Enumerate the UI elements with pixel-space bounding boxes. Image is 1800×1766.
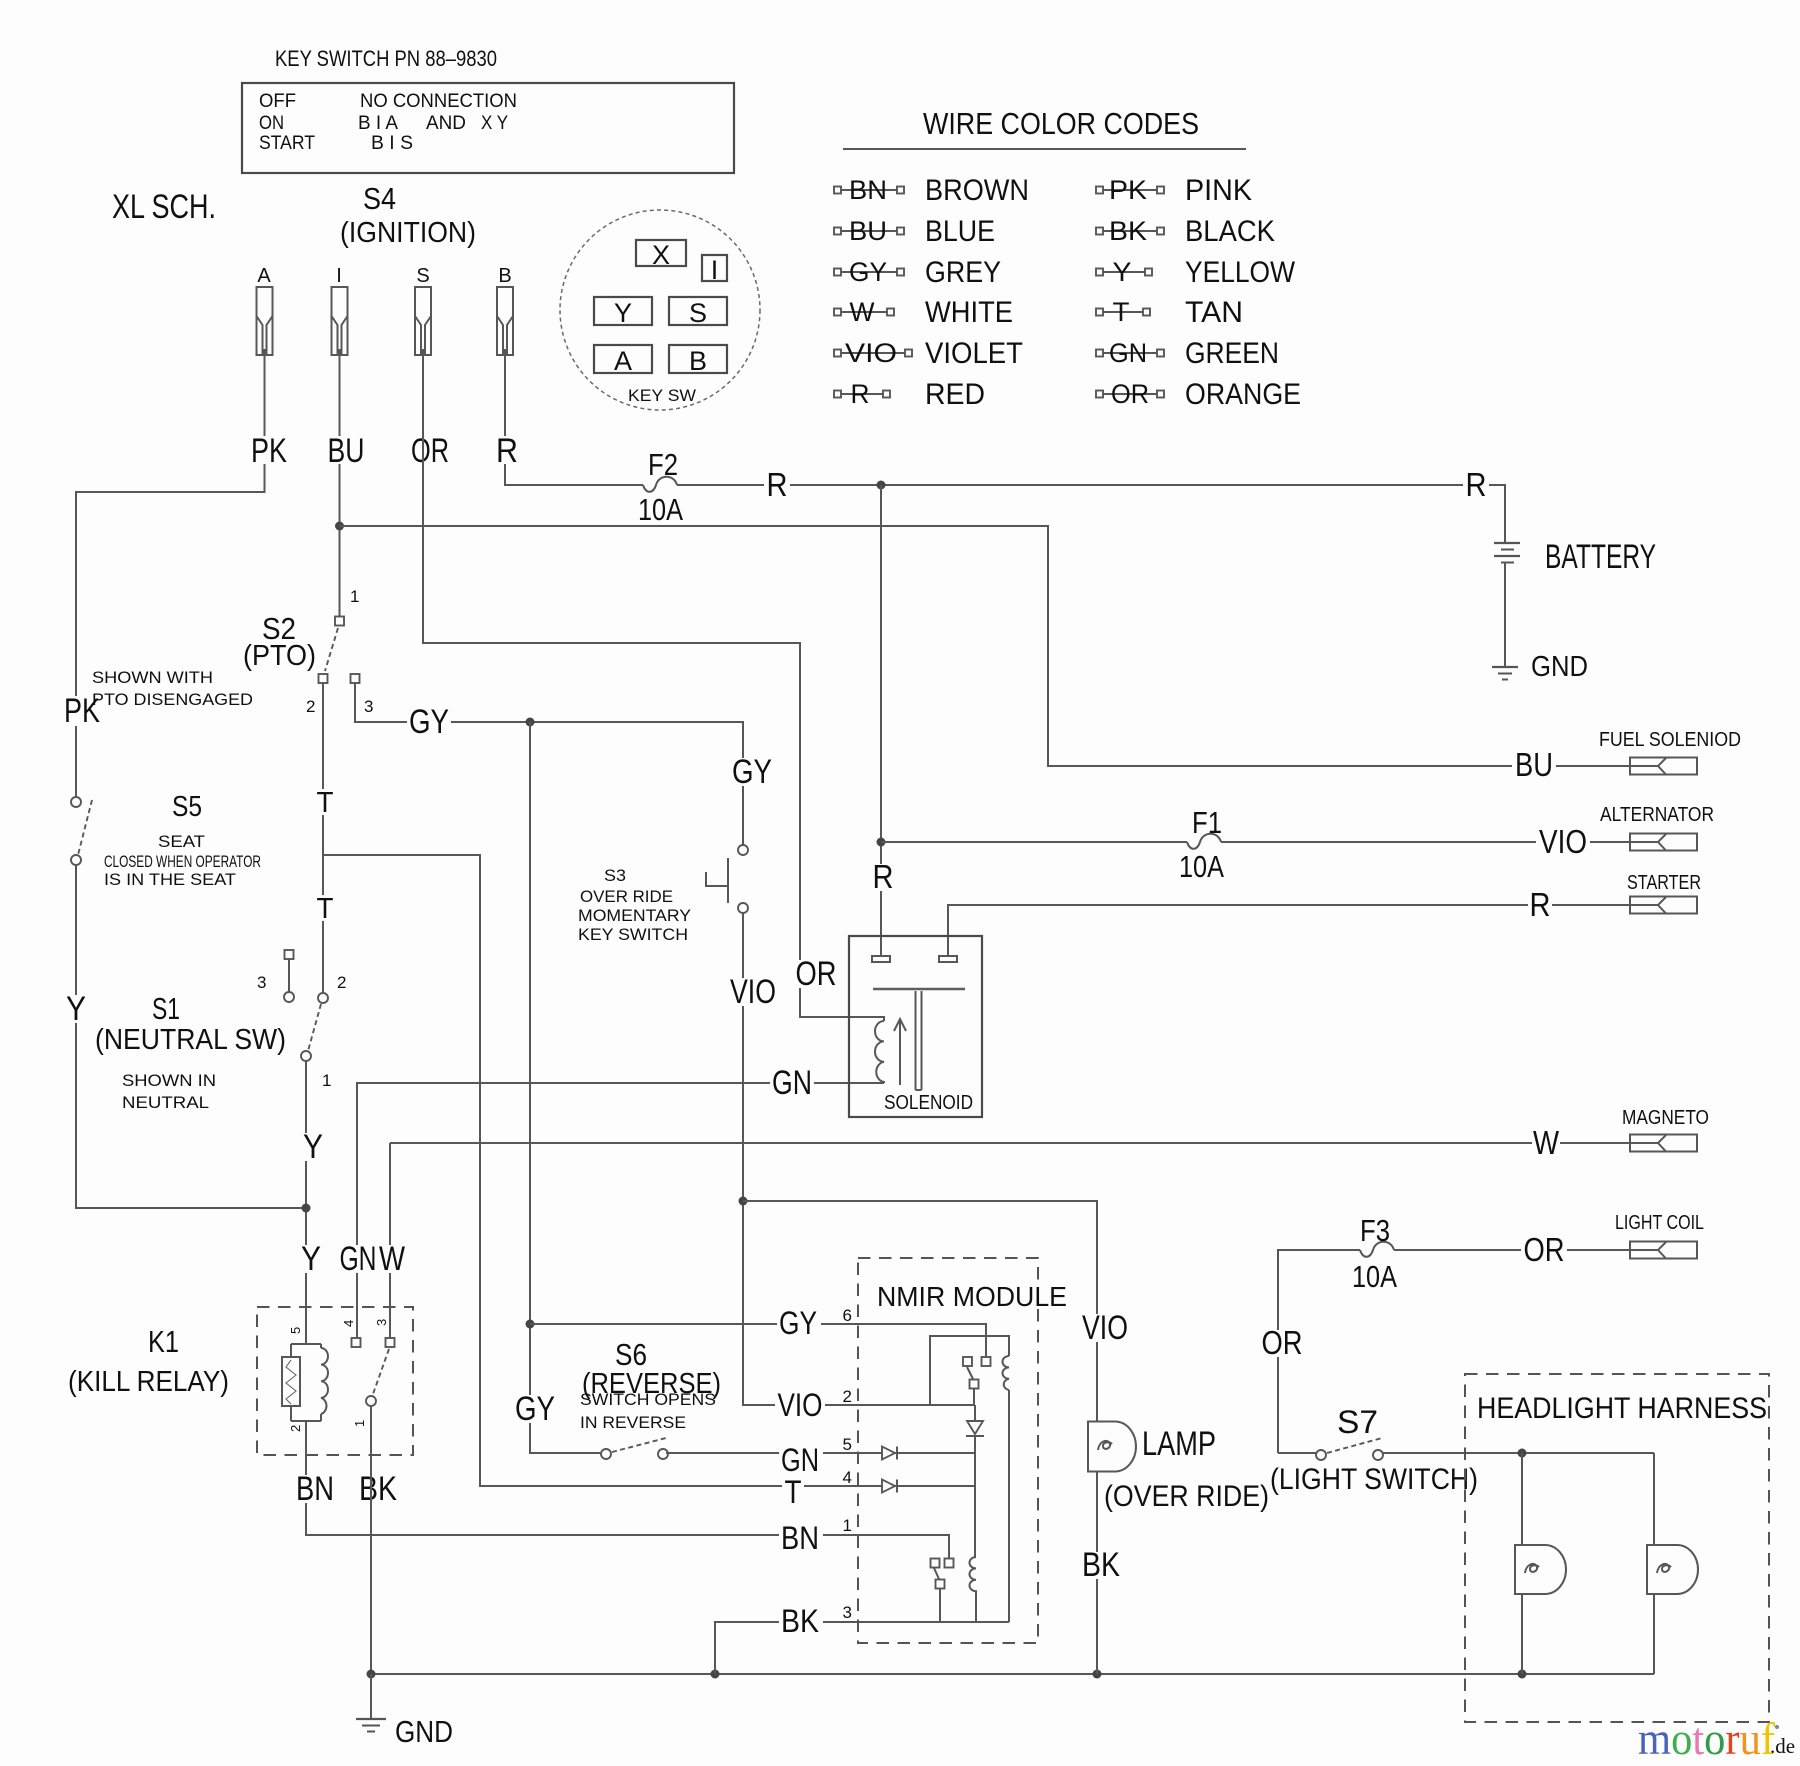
svg-text:XL SCH.: XL SCH. (112, 188, 216, 226)
battery (1494, 538, 1656, 576)
svg-text:Y: Y (66, 990, 86, 1028)
svg-text:K1: K1 (148, 1324, 179, 1359)
svg-text:1: 1 (350, 587, 359, 606)
label BU under pin I (325, 432, 365, 470)
wire GY drop to S6 and NMIR pin 6 (530, 722, 603, 1453)
resistor R in K1 (282, 1357, 300, 1406)
svg-text:CLOSED WHEN OPERATOR: CLOSED WHEN OPERATOR (104, 852, 261, 871)
svg-text:BLACK: BLACK (1185, 215, 1275, 248)
label Y lower (298, 1240, 324, 1278)
NMIR top relay contact (963, 1357, 991, 1405)
svg-text:4: 4 (341, 1320, 356, 1327)
svg-text:STARTER: STARTER (1627, 872, 1701, 894)
NMIR bottom relay coil (970, 1557, 976, 1622)
svg-text:SHOWN WITH: SHOWN WITH (92, 668, 213, 687)
label BN below K1 (294, 1470, 336, 1508)
svg-text:KEY SW: KEY SW (628, 386, 696, 405)
svg-text:KEY SWITCH PN 88–9830: KEY SWITCH PN 88–9830 (275, 46, 497, 71)
switch S3 over ride momentary (706, 845, 748, 913)
svg-text:SWITCH OPENS: SWITCH OPENS (580, 1390, 716, 1409)
svg-text:MAGNETO: MAGNETO (1622, 1107, 1709, 1129)
svg-text:BU: BU (328, 432, 365, 470)
coil of K1 (321, 1348, 328, 1414)
svg-text:S7: S7 (1337, 1404, 1378, 1440)
ground battery GND (1492, 651, 1588, 683)
svg-text:1: 1 (352, 1420, 367, 1427)
svg-text:SOLENOID: SOLENOID (884, 1092, 973, 1114)
label GY at NMIR pin 6 (777, 1305, 821, 1341)
wire alternator feed through F1 (881, 841, 1187, 843)
svg-text:GREEN: GREEN (1185, 337, 1279, 370)
label BK below K1 (357, 1470, 399, 1508)
wire GN from S6 to NMIR pin 5 (666, 1452, 975, 1454)
svg-text:(OVER RIDE): (OVER RIDE) (1104, 1480, 1269, 1513)
svg-text:BU: BU (1515, 746, 1553, 783)
svg-text:MOMENTARY: MOMENTARY (578, 906, 691, 925)
svg-text:BROWN: BROWN (925, 174, 1029, 207)
svg-text:3: 3 (843, 1603, 852, 1622)
connector pin I of S4 (332, 265, 348, 355)
label PK at seat switch (58, 692, 104, 730)
svg-text:Y: Y (301, 1240, 321, 1278)
wire from S7 to headlights (1382, 1452, 1654, 1454)
svg-text:BK: BK (781, 1603, 819, 1639)
svg-text:(PTO): (PTO) (243, 640, 316, 672)
svg-text:BK: BK (1109, 216, 1147, 246)
svg-text:SEAT: SEAT (158, 832, 205, 851)
wire OR light coil (1394, 1249, 1658, 1251)
wire left headlamp to ground rail (1521, 1594, 1523, 1674)
label VIO at NMIR pin 2 (775, 1387, 825, 1423)
headlamp right (1647, 1545, 1698, 1594)
wire T from S2 pin 2 to S1 pin 2 (322, 683, 324, 993)
label R on wire (764, 466, 790, 503)
connector LIGHT COIL (1615, 1212, 1704, 1259)
svg-text:FUEL SOLENIOD: FUEL SOLENIOD (1599, 729, 1741, 751)
solenoid plunger arrow (894, 1019, 906, 1085)
svg-text:Y: Y (1113, 257, 1132, 287)
legend row GN GREEN (1096, 337, 1279, 370)
svg-text:Y: Y (303, 1128, 323, 1166)
svg-text:BN: BN (781, 1520, 819, 1556)
label T at NMIR pin 4 (782, 1474, 804, 1510)
svg-text:IS IN THE SEAT: IS IN THE SEAT (104, 870, 236, 889)
ground symbol GND (356, 1674, 453, 1749)
svg-text:10A: 10A (1352, 1259, 1397, 1294)
label S1 pin numbers (257, 973, 346, 1090)
motoruf watermark logo (1638, 1713, 1795, 1764)
svg-text:1: 1 (322, 1071, 331, 1090)
svg-text:PINK: PINK (1185, 174, 1252, 207)
svg-text:T: T (1113, 297, 1130, 327)
wire R starter from solenoid (948, 905, 1658, 956)
label BN at NMIR pin 1 (779, 1520, 823, 1556)
node ground junctions (367, 1670, 376, 1679)
wire battery to ground (1504, 563, 1506, 668)
label S6 (REVERSE) (580, 1337, 721, 1432)
relay K1 contact pin 3 terminal (386, 1338, 395, 1347)
connector FUEL SOLENIOD (1599, 729, 1741, 775)
fuse F2 (638, 447, 683, 527)
headlight harness dashed box (1465, 1374, 1769, 1722)
svg-text:OR: OR (1111, 379, 1149, 409)
svg-text:ON: ON (259, 113, 284, 134)
wire W to magneto (390, 1142, 1658, 1144)
svg-text:2: 2 (843, 1387, 852, 1406)
label S2 pin numbers (306, 587, 373, 716)
diode D3 on pin 4 wire (882, 1480, 895, 1493)
svg-text:I: I (711, 255, 719, 285)
svg-text:X Y: X Y (481, 113, 508, 134)
label W lower (378, 1240, 406, 1278)
node headlight feed junction (1518, 1449, 1527, 1458)
svg-text:S3: S3 (604, 866, 626, 885)
label OR under pin S (408, 432, 450, 470)
NMIR top relay coil (1003, 1356, 1010, 1390)
svg-text:GY: GY (515, 1390, 555, 1428)
svg-text:A: A (614, 346, 632, 376)
label VIO on alternator wire (1536, 823, 1590, 860)
svg-text:BLUE: BLUE (925, 215, 995, 248)
svg-text:BU: BU (849, 216, 887, 246)
label K1 (KILL RELAY) (68, 1324, 229, 1398)
svg-text:(IGNITION): (IGNITION) (340, 217, 476, 249)
svg-text:BATTERY: BATTERY (1545, 538, 1656, 576)
svg-text:B: B (689, 346, 707, 376)
svg-text:(NEUTRAL SW): (NEUTRAL SW) (95, 1024, 286, 1056)
svg-text:2: 2 (288, 1425, 303, 1432)
wire OR from light coil through F3 (1278, 1250, 1360, 1453)
svg-text:F3: F3 (1360, 1213, 1390, 1248)
wire BU from key pin I to S2 pin 1 (339, 355, 341, 616)
node R junction at battery feed (877, 481, 886, 490)
relay K1 coil branch wiring (291, 1344, 321, 1421)
wire W drop to K1 pin 3 (389, 1143, 391, 1338)
svg-text:6: 6 (843, 1306, 852, 1325)
svg-text:S4: S4 (363, 181, 396, 216)
label S1 (NEUTRAL SW) (95, 991, 286, 1112)
svg-text:3: 3 (257, 973, 266, 992)
svg-text:B I A: B I A (358, 113, 398, 134)
legend row R RED (834, 378, 985, 411)
wire NMIR internal common drop to pin 3 line (1008, 1390, 1010, 1622)
svg-text:GN: GN (772, 1064, 812, 1102)
label BU on fuel solenoid wire (1512, 746, 1556, 783)
label BK at NMIR pin 3 (779, 1603, 823, 1639)
svg-text:T: T (317, 893, 334, 925)
svg-text:3: 3 (364, 697, 373, 716)
connector pin A of S4 (257, 265, 273, 355)
label VIO below S3 (728, 973, 778, 1011)
node VIO junction to lamp (739, 1197, 748, 1206)
label Y on left wire (64, 990, 88, 1028)
wire to left headlamp (1521, 1453, 1523, 1545)
switch S1 (neutral) (284, 950, 328, 1061)
svg-text:WIRE COLOR CODES: WIRE COLOR CODES (923, 106, 1199, 141)
svg-text:T: T (785, 1474, 802, 1510)
svg-text:5: 5 (843, 1435, 852, 1454)
connector MAGNETO (1622, 1107, 1709, 1152)
relay K1 dashed box (257, 1307, 413, 1455)
label LAMP (OVER RIDE) (1104, 1425, 1269, 1513)
wire VIO branch to override lamp (743, 1201, 1097, 1421)
svg-text:WHITE: WHITE (925, 296, 1013, 329)
svg-text:NEUTRAL: NEUTRAL (122, 1093, 209, 1112)
svg-text:YELLOW: YELLOW (1185, 256, 1296, 289)
svg-text:W: W (379, 1240, 405, 1278)
key switch face diagram (KEY SW) (560, 210, 760, 410)
svg-text:PK: PK (251, 432, 287, 470)
fuse F3 (1352, 1213, 1397, 1294)
switch S6 (reverse) (601, 1438, 668, 1459)
svg-text:F2: F2 (648, 447, 678, 482)
svg-text:OR: OR (796, 955, 837, 993)
legend row OR ORANGE (1096, 378, 1301, 411)
svg-text:RED: RED (925, 378, 985, 411)
label S2 (PTO) (243, 611, 316, 672)
label T lower (314, 893, 336, 925)
svg-text:LIGHT COIL: LIGHT COIL (1615, 1212, 1704, 1234)
fuse F1 (1179, 805, 1224, 884)
label S7 (LIGHT SWITCH) (1270, 1404, 1478, 1496)
svg-text:10A: 10A (638, 492, 683, 527)
svg-text:R: R (873, 858, 894, 895)
svg-text:B: B (498, 265, 511, 287)
svg-text:VIO: VIO (778, 1387, 823, 1423)
legend row W WHITE (834, 296, 1013, 329)
solenoid terminal right (939, 956, 957, 962)
svg-text:W: W (1533, 1124, 1560, 1161)
connector pin S of S4 (415, 265, 431, 355)
label GY after S2 (407, 703, 451, 741)
svg-text:OR: OR (1524, 1231, 1565, 1268)
svg-text:PK: PK (1109, 175, 1147, 205)
label BK at lamp (1080, 1546, 1122, 1584)
svg-text:ORANGE: ORANGE (1185, 378, 1301, 411)
svg-text:BK: BK (359, 1470, 397, 1508)
svg-text:START: START (259, 133, 315, 154)
svg-text:GN: GN (340, 1240, 377, 1278)
solenoid terminal left (872, 956, 890, 962)
relay K1 contact pin 4 terminal (352, 1338, 361, 1347)
svg-text:R: R (851, 379, 870, 409)
wire to right headlamp (1653, 1453, 1655, 1545)
label S3 over ride momentary key switch (578, 866, 691, 944)
svg-text:X: X (652, 240, 670, 270)
svg-text:OFF: OFF (259, 91, 296, 112)
solenoid plunger T bar (873, 989, 965, 1090)
svg-text:1: 1 (843, 1516, 852, 1535)
svg-text:.de: .de (1770, 1734, 1795, 1758)
label W on magneto wire (1532, 1124, 1560, 1161)
wire color codes legend title (843, 106, 1246, 149)
wire R vertical to solenoid (880, 485, 882, 956)
svg-text:VIO: VIO (1539, 823, 1587, 860)
node GY junction (526, 718, 535, 727)
svg-text:GREY: GREY (925, 256, 1001, 289)
svg-text:F1: F1 (1192, 805, 1222, 840)
label Y mid (300, 1128, 326, 1166)
connector pin B of S4 (497, 265, 513, 355)
label R under pin B (496, 432, 518, 470)
svg-text:NO CONNECTION: NO CONNECTION (360, 91, 517, 112)
wire T branch to NMIR pin 4 (323, 855, 975, 1486)
svg-text:S1: S1 (152, 991, 180, 1026)
svg-text:IN REVERSE: IN REVERSE (580, 1413, 686, 1432)
wire BN from K1 pin 2 to NMIR pin 1 (306, 1421, 949, 1558)
wire VIO to alternator (1221, 841, 1658, 843)
label R above solenoid (872, 858, 896, 895)
svg-text:GND: GND (1531, 651, 1588, 683)
connector ALTERNATOR (1600, 804, 1714, 851)
svg-text:GY: GY (779, 1305, 817, 1341)
NMIR top relay coil loop (930, 1336, 1009, 1405)
svg-text:BK: BK (1082, 1546, 1120, 1584)
svg-text:AND: AND (426, 113, 466, 134)
wire R from key pin B through F2 to battery (505, 355, 643, 485)
solenoid coil (875, 1021, 884, 1083)
svg-text:GY: GY (732, 753, 772, 791)
diode D2 on pin 5 wire (882, 1447, 895, 1460)
legend row BU BLUE (834, 215, 995, 248)
wire VIO from S3 to NMIR pin 2 (743, 913, 975, 1405)
svg-text:2: 2 (337, 973, 346, 992)
node R alternator junction (877, 838, 886, 847)
svg-text:4: 4 (843, 1468, 852, 1487)
switch S5 (seat) (71, 797, 92, 865)
legend row GY GREY (834, 256, 1001, 289)
svg-text:S: S (416, 265, 429, 287)
svg-text:GN: GN (1109, 338, 1147, 368)
wire Y from S5 down to S1 output junction (76, 865, 306, 1208)
switch S7 (light switch) (1278, 1438, 1383, 1460)
svg-text:VIO: VIO (730, 973, 776, 1011)
svg-text:GND: GND (395, 1714, 453, 1749)
svg-text:ALTERNATOR: ALTERNATOR (1600, 804, 1714, 826)
svg-text:3: 3 (374, 1319, 389, 1326)
wire PK from key pin A (76, 355, 265, 797)
legend row BK BLACK (1096, 215, 1275, 248)
svg-text:GY: GY (849, 257, 887, 287)
svg-text:R: R (496, 432, 518, 470)
svg-text:GN: GN (781, 1442, 819, 1478)
svg-text:TAN: TAN (1185, 296, 1243, 329)
label R on starter wire (1528, 886, 1552, 923)
node BU branch junction (335, 522, 344, 531)
svg-text:W: W (850, 297, 876, 327)
wire BK from NMIR pin 3 to ground rail (715, 1622, 1009, 1674)
svg-text:B I S: B I S (371, 133, 413, 154)
svg-text:SHOWN IN: SHOWN IN (122, 1071, 216, 1090)
svg-text:R: R (1466, 466, 1487, 503)
label GY above S3 (730, 753, 774, 791)
solenoid box (849, 936, 982, 1117)
svg-text:I: I (336, 265, 342, 287)
note shown with PTO disengaged (92, 668, 253, 709)
svg-text:NMIR MODULE: NMIR MODULE (877, 1281, 1067, 1312)
label S5 seat notes (104, 791, 261, 889)
switch S4 (ignition) label (340, 181, 476, 249)
label GN lower (338, 1240, 378, 1278)
label PK under pin A (248, 432, 288, 470)
legend row Y YELLOW (1096, 256, 1296, 289)
label GN at solenoid (770, 1064, 814, 1102)
svg-text:LAMP: LAMP (1142, 1425, 1216, 1463)
label OR on light switch drop (1259, 1324, 1305, 1361)
svg-text:A: A (257, 265, 271, 287)
wire BU branch to fuel solenoid (340, 526, 1659, 766)
node Y junction with seat wire (302, 1204, 311, 1213)
svg-text:VIO: VIO (845, 338, 897, 368)
headlamp left (1515, 1545, 1566, 1594)
svg-text:10A: 10A (1179, 849, 1224, 884)
svg-text:VIO: VIO (1082, 1309, 1128, 1347)
label R near battery (1463, 466, 1489, 503)
svg-text:KEY SWITCH: KEY SWITCH (578, 925, 688, 944)
label VIO at lamp (1080, 1309, 1130, 1347)
node GY junction to NMIR pin 6 (526, 1320, 535, 1329)
svg-text:BN: BN (849, 175, 887, 205)
svg-text:S6: S6 (615, 1337, 647, 1372)
svg-text:OR: OR (411, 432, 449, 470)
svg-text:motoruf: motoruf (1638, 1713, 1776, 1764)
label NMIR pin numbers (843, 1306, 852, 1622)
relay K1 common terminal (366, 1396, 376, 1406)
label T upper (314, 787, 336, 819)
wire BK from K1 pin 1 to ground rail (370, 1406, 372, 1674)
label OR on light coil wire (1521, 1231, 1567, 1268)
label GY at S6 (513, 1390, 557, 1428)
ground rail wire (371, 1673, 1654, 1675)
svg-text:OR: OR (1262, 1324, 1303, 1361)
svg-text:R: R (767, 466, 788, 503)
label OR on solenoid drop (793, 955, 839, 993)
svg-text:VIOLET: VIOLET (925, 337, 1023, 370)
wire BK from lamp to ground rail (1096, 1472, 1098, 1675)
wire Y from S1 pin 1 to K1 (305, 1061, 307, 1344)
legend row BN BROWN (834, 174, 1029, 207)
key switch truth-table box (242, 83, 734, 173)
NMIR bottom relay contact (931, 1559, 954, 1623)
wire GN from solenoid coil to K1 pin 4 (357, 1083, 884, 1338)
svg-text:R: R (1530, 886, 1551, 923)
svg-text:2: 2 (306, 697, 315, 716)
svg-text:(KILL RELAY): (KILL RELAY) (68, 1366, 229, 1398)
svg-text:S5: S5 (172, 791, 202, 823)
svg-text:BN: BN (296, 1470, 334, 1508)
label GN at NMIR pin 5 (779, 1442, 823, 1478)
relay K1 blade (373, 1349, 389, 1394)
lamp (over ride) (1088, 1422, 1136, 1472)
connector STARTER (1627, 872, 1701, 914)
legend row VIO VIOLET (834, 337, 1023, 370)
wire right headlamp to ground rail (1653, 1594, 1655, 1674)
svg-text:(LIGHT SWITCH): (LIGHT SWITCH) (1270, 1463, 1478, 1496)
svg-text:OVER RIDE: OVER RIDE (580, 887, 673, 906)
switch S2 (PTO) (319, 617, 360, 684)
svg-text:S: S (689, 298, 707, 328)
wire GY from S2 pin 3 (355, 683, 743, 845)
diode D1 vertical in NMIR (966, 1405, 984, 1557)
wire GY to NMIR pin 6 (530, 1324, 986, 1357)
svg-text:HEADLIGHT HARNESS: HEADLIGHT HARNESS (1477, 1392, 1767, 1425)
legend row T TAN (1096, 296, 1243, 329)
wire R continuing to battery (677, 485, 1505, 543)
svg-text:PTO DISENGAGED: PTO DISENGAGED (92, 690, 253, 709)
NMIR module dashed box (858, 1258, 1038, 1643)
svg-text:GY: GY (409, 703, 449, 741)
svg-text:T: T (317, 787, 334, 819)
